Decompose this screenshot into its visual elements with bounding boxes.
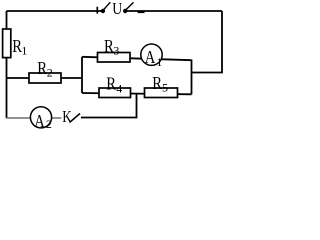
svg-text:2: 2 (47, 66, 53, 80)
resistor R3 (98, 53, 131, 63)
svg-text:3: 3 (113, 43, 119, 57)
plus polarity mark (96, 7, 98, 14)
svg-text:A: A (34, 111, 45, 131)
resistor R4 (99, 88, 131, 98)
label R2 (37, 58, 53, 79)
label R3 (104, 36, 119, 58)
parallel block right edge wire (191, 60, 193, 95)
wire A2 to switch (52, 117, 62, 119)
svg-text:A: A (145, 47, 156, 67)
svg-text:R: R (104, 36, 114, 56)
svg-text:R: R (37, 58, 47, 78)
ammeter A1 (141, 44, 163, 69)
parallel block left edge wire (81, 57, 83, 93)
label K (62, 107, 72, 126)
label R5 (152, 73, 168, 95)
resistor R2 (29, 73, 61, 83)
wire R2 branch (7, 77, 83, 79)
svg-text:1: 1 (156, 55, 162, 69)
terminal post left (101, 2, 111, 13)
wire top-right segment (125, 10, 222, 12)
svg-text:R: R (106, 73, 116, 93)
label R4 (106, 73, 122, 95)
wire right side down (192, 11, 223, 73)
minus polarity mark (138, 11, 145, 13)
wire drop from R4-R5 junction (81, 94, 137, 118)
svg-text:U: U (112, 0, 122, 18)
ammeter A2 (30, 107, 52, 131)
label U (112, 0, 122, 18)
branch 2 wire (82, 93, 192, 94)
resistor R1 (3, 29, 11, 58)
svg-text:2: 2 (46, 117, 52, 131)
svg-text:1: 1 (21, 44, 27, 58)
svg-text:K: K (62, 107, 72, 126)
svg-text:R: R (152, 73, 162, 93)
branch 1 wire (82, 57, 192, 60)
terminal post right (123, 2, 134, 13)
switch K blade (70, 114, 81, 123)
resistor R5 (145, 88, 178, 98)
svg-text:4: 4 (116, 81, 122, 95)
label R1 (12, 36, 27, 58)
wire top-left segment (7, 10, 102, 12)
wire left side down (6, 11, 8, 118)
svg-text:5: 5 (162, 81, 168, 95)
wire bottom-left segment (6, 117, 31, 119)
